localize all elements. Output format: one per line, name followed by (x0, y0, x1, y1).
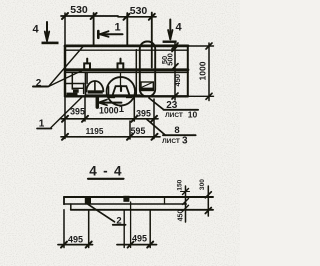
dimension row2 1195/595 (61, 126, 160, 140)
section right extension line y=191.5 (181, 191, 190, 193)
seat line under corbels (86, 94, 141, 96)
svg-text:2: 2 (116, 216, 121, 227)
plate with stem right (embedded item) (118, 59, 124, 86)
body right edge (187, 46, 189, 96)
svg-text:530: 530 (130, 5, 148, 17)
dim row1 extension x=85 (84, 96, 86, 121)
svg-text:4: 4 (32, 24, 39, 36)
section bottom extension x=64 (63, 210, 65, 248)
section bottom extension x=131 (130, 202, 132, 248)
body bottom edge (65, 95, 188, 97)
title 4-4 (88, 164, 124, 179)
section dim 495 left (58, 235, 93, 248)
svg-text:10: 10 (188, 110, 198, 120)
corbel trapezoid center (113, 86, 130, 95)
svg-text:ЛИСТ: ЛИСТ (165, 112, 183, 119)
svg-text:495: 495 (68, 235, 83, 245)
section embedded plate 1 (85, 198, 91, 204)
body left edge (64, 46, 66, 96)
dim row1 extension x=65 (64, 96, 66, 138)
svg-text:395: 395 (70, 107, 85, 117)
callout 2 left (33, 47, 83, 90)
section slab outline (64, 197, 213, 210)
svg-text:150: 150 (176, 179, 183, 190)
section bottom extension x=125 (123, 210, 125, 248)
extension line x=92.5 (also section line 1 upper) (93, 13, 95, 46)
plate with stem left (embedded item) (84, 59, 90, 84)
section outer dim line 300 (199, 179, 211, 216)
section inner dim line 150/450 (176, 179, 188, 222)
inner vertical dim chain 50/500/450 (160, 43, 182, 100)
arch A (86, 81, 103, 92)
interior ledge lines left (71, 72, 73, 89)
svg-text:1: 1 (114, 22, 120, 34)
outer vertical dim 1000 (188, 43, 214, 101)
svg-text:300: 300 (199, 179, 206, 190)
vertical channel line x=136.3 (135, 50, 137, 97)
dark pads at center corbel feet (109, 95, 132, 99)
extension line x=65 (64, 13, 66, 46)
body top edge (65, 46, 188, 50)
dimension 530 left (top row) (61, 4, 118, 19)
section mark 4 right (163, 20, 183, 43)
section embedded plate 2 (123, 196, 129, 202)
svg-text:4 - 4: 4 - 4 (89, 164, 123, 179)
svg-text:1000: 1000 (198, 61, 208, 80)
svg-text:8: 8 (174, 125, 179, 136)
dark pad under arch A (88, 90, 103, 93)
svg-text:3: 3 (182, 136, 188, 147)
svg-text:595: 595 (131, 126, 146, 136)
short vertical between arch A and center corbel (108, 87, 110, 96)
section bottom extension x=150.2 (149, 210, 151, 248)
svg-text:450: 450 (178, 210, 185, 222)
svg-text:1000: 1000 (99, 106, 119, 116)
section bottom extension x=88.7 (88, 210, 90, 248)
svg-text:395: 395 (136, 109, 151, 119)
extension line x=152 (151, 13, 153, 68)
svg-text:500: 500 (166, 53, 175, 66)
svg-text:1: 1 (119, 104, 125, 115)
dimension row1 395/1000/395 (61, 106, 158, 122)
corbel bracket left (65, 84, 84, 96)
dim row2 extension x=130 (129, 121, 131, 139)
svg-text:450: 450 (173, 74, 182, 87)
callout 23 ЛИСТ 10 (149, 98, 198, 120)
dimension 530 right (top row) (118, 5, 156, 20)
svg-text:4: 4 (175, 22, 182, 34)
seat block inside stadium (141, 82, 153, 91)
detail circle (107, 77, 135, 105)
dim row1 extension x=134.3 (133, 96, 135, 121)
body shelf band (65, 70, 188, 73)
lifting loop slot (stadium) (140, 42, 155, 97)
callout 8 ЛИСТ 3 (147, 120, 196, 147)
svg-text:1195: 1195 (86, 127, 104, 136)
section mark 4 left (32, 22, 58, 44)
vertical x=85.5 (85, 72, 87, 96)
section mark 1 top arrow (98, 22, 122, 38)
svg-text:23: 23 (166, 100, 178, 111)
section mark 1 bottom (97, 97, 124, 115)
callout 2 section (88, 204, 126, 226)
svg-text:495: 495 (132, 234, 147, 244)
extension line x=122 (126, 13, 128, 46)
dim row1 extension x=154 (153, 99, 155, 139)
section dim 495 right (117, 234, 157, 248)
callout 1 left (37, 97, 82, 130)
svg-text:530: 530 (70, 4, 88, 16)
svg-text:ЛИСТ: ЛИСТ (162, 138, 180, 145)
